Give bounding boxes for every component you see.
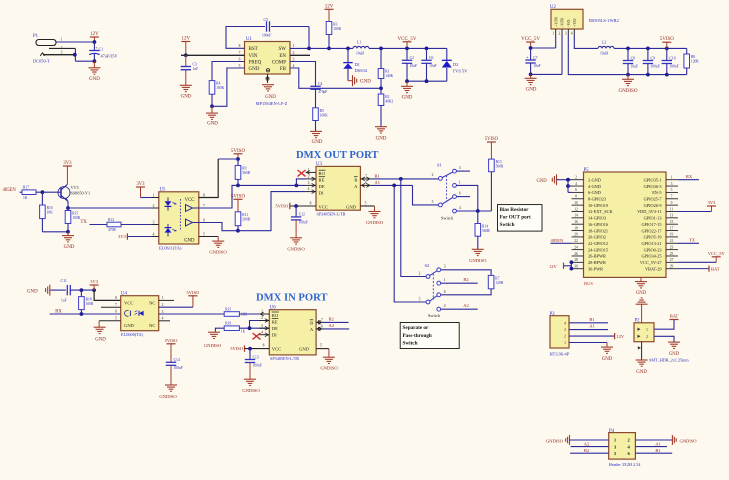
svg-text:3: 3: [459, 166, 461, 170]
power flag VCC_5V output: [403, 42, 412, 49]
svg-text:NC: NC: [149, 300, 155, 305]
junction R11/DI net: [236, 229, 240, 233]
svg-text:5VISO: 5VISO: [485, 137, 499, 142]
svg-text:1: 1: [459, 180, 461, 184]
svg-text:S2: S2: [425, 263, 431, 268]
svg-text:GND: GND: [89, 77, 100, 82]
svg-text:8: 8: [115, 296, 117, 300]
svg-text:5: 5: [115, 316, 117, 320]
svg-text:Separate or: Separate or: [403, 325, 429, 331]
ground GND under VT3: [62, 236, 74, 242]
ground GNDISO under C8: [627, 75, 629, 79]
power flag 5VISO at U4 pin2: [188, 296, 197, 307]
svg-text:560R: 560R: [242, 171, 250, 175]
svg-text:1: 1: [646, 328, 648, 332]
wire U5 pin5 to iso ground: [199, 236, 218, 238]
wire output gnd rail: [407, 80, 447, 82]
power flag 3V3 at VT3 collector: [63, 166, 72, 184]
svg-text:Swtich: Swtich: [500, 222, 515, 228]
svg-text:120R: 120R: [495, 281, 503, 285]
svg-text:100nF: 100nF: [253, 363, 262, 367]
svg-text:16-GPIO16: 16-GPIO16: [588, 222, 609, 227]
svg-text:560R: 560R: [482, 229, 490, 233]
resistor R15 100R: [67, 208, 69, 211]
svg-text:12: 12: [574, 207, 578, 211]
svg-text:1K: 1K: [241, 329, 246, 333]
ground GND above P2 (inverted): [636, 298, 648, 304]
svg-text:1uF: 1uF: [193, 67, 199, 71]
svg-text:5: 5: [203, 232, 205, 236]
svg-text:5VISO: 5VISO: [276, 204, 290, 209]
transistor VT3 SS8050-Y1: [58, 187, 70, 199]
svg-text:6: 6: [575, 188, 577, 192]
svg-text:VIN: VIN: [249, 54, 258, 59]
junction A1 branch: [392, 184, 396, 188]
svg-text:VBAT-29: VBAT-29: [645, 266, 662, 271]
svg-text:5VISO: 5VISO: [230, 346, 244, 351]
resistor R5 100K: [313, 108, 319, 121]
svg-text:TX: TX: [81, 220, 88, 225]
svg-text:B: B: [310, 321, 313, 326]
resistor R15 10K on RX line: [159, 313, 225, 315]
svg-text:R18: R18: [86, 298, 92, 302]
svg-text:C6: C6: [429, 56, 433, 60]
junction FB divider: [379, 86, 383, 90]
svg-text:GND: GND: [346, 204, 357, 209]
svg-text:4-GND: 4-GND: [588, 184, 601, 189]
capacitor C9 100nF: [646, 47, 650, 51]
svg-text:C8: C8: [631, 56, 635, 60]
capacitor C1 47uF/35V: [93, 42, 95, 51]
capacitor C8 10uF: [626, 47, 630, 51]
note box Separate or Pass-through: [400, 323, 459, 349]
svg-text:R8: R8: [691, 55, 695, 59]
resistor R3 100K: [326, 22, 332, 35]
ground GNDISO + resistor R19 1K to U6 RE/DE: [208, 332, 220, 338]
wire RE/DE net to U3 DE: [238, 184, 306, 186]
svg-text:EL0600(TA): EL0600(TA): [121, 332, 144, 337]
svg-text:R14: R14: [482, 225, 488, 229]
svg-text:R4: R4: [216, 82, 220, 86]
svg-text:10uF: 10uF: [410, 64, 417, 68]
wire COMP to C4: [290, 62, 316, 87]
svg-text:GPIO17-15: GPIO17-15: [641, 222, 661, 227]
svg-text:2: 2: [564, 335, 566, 339]
wire A1 jog down to S1 pin5: [413, 185, 439, 205]
svg-text:3V3: 3V3: [63, 161, 72, 166]
junction C5/SW: [307, 47, 311, 51]
svg-text:18: 18: [574, 226, 578, 230]
svg-text:12V: 12V: [325, 4, 334, 9]
inductor L2 10uH: [598, 46, 614, 48]
wire S2 pin4 stub A2: [441, 308, 478, 310]
svg-text:5VISO: 5VISO: [187, 290, 201, 295]
svg-text:R2: R2: [385, 95, 389, 99]
resistor R16 10K: [41, 192, 43, 205]
svg-text:100K: 100K: [216, 86, 224, 90]
svg-text:EL0611(TA): EL0611(TA): [159, 246, 182, 251]
svg-text:GND: GND: [602, 357, 613, 362]
svg-text:10uH: 10uH: [356, 52, 364, 56]
power flag 12V at VIN: [181, 42, 190, 56]
svg-text:24: 24: [574, 245, 578, 249]
net label A2 wire: [323, 328, 350, 330]
ground GNDISO under U3: [369, 212, 381, 218]
svg-text:-VO: -VO: [566, 20, 571, 27]
svg-text:R19: R19: [225, 322, 231, 326]
svg-text:100K: 100K: [333, 27, 341, 31]
svg-text:GPIO36-3: GPIO36-3: [644, 184, 662, 189]
svg-text:100K: 100K: [320, 113, 328, 117]
svg-text:14-GPIO3: 14-GPIO3: [588, 216, 606, 221]
svg-text:3V3: 3V3: [118, 234, 126, 239]
power flag 5VISO above R11: [234, 199, 243, 212]
svg-text:GND: GND: [636, 370, 647, 375]
svg-text:A2: A2: [329, 323, 335, 328]
svg-text:20: 20: [574, 233, 578, 237]
svg-text:1: 1: [444, 278, 446, 282]
U4 internal LED: [139, 311, 144, 316]
capacitor C3 1uF: [185, 55, 187, 66]
svg-text:RO: RO: [272, 313, 279, 318]
svg-text:GND: GND: [299, 347, 310, 352]
svg-text:GND: GND: [376, 137, 387, 142]
svg-text:3: 3: [671, 182, 673, 186]
junction R9/RE-DE net: [236, 184, 240, 188]
svg-text:B2: B2: [584, 448, 589, 453]
svg-text:DI: DI: [272, 332, 277, 337]
svg-text:C3: C3: [193, 62, 197, 66]
svg-text:1: 1: [153, 193, 155, 197]
junction RE/DE tie: [248, 326, 252, 330]
svg-text:3: 3: [308, 181, 310, 185]
power flag 3V3 at U4: [90, 285, 99, 290]
resistor R13 560R: [489, 159, 495, 172]
svg-text:470pF: 470pF: [318, 90, 327, 94]
svg-text:3: 3: [162, 310, 164, 314]
svg-text:VCC_5V: VCC_5V: [398, 37, 417, 42]
capacitor C14 100nF: [166, 361, 176, 363]
power flag VCC_5V at U2 input: [526, 42, 535, 48]
svg-text:A1: A1: [589, 324, 595, 329]
svg-text:GPIO5-19: GPIO5-19: [644, 235, 662, 240]
svg-text:B1: B1: [655, 448, 660, 453]
wire S1 pin6 stub: [456, 196, 470, 198]
svg-text:30-PWR: 30-PWR: [588, 266, 603, 271]
resistor R9 560R: [237, 159, 239, 166]
svg-text:19: 19: [670, 233, 674, 237]
svg-text:2: 2: [575, 176, 577, 180]
svg-text:VCC_5V-27: VCC_5V-27: [640, 260, 662, 265]
svg-text:C9: C9: [651, 56, 655, 60]
svg-text:13: 13: [670, 214, 674, 218]
svg-text:VCC: VCC: [185, 198, 195, 203]
svg-text:2: 2: [646, 335, 648, 339]
svg-text:100nF: 100nF: [174, 366, 183, 370]
svg-text:B: B: [354, 178, 357, 183]
svg-text:GPIO0-23: GPIO0-23: [644, 247, 662, 252]
svg-text:SS8050-Y1: SS8050-Y1: [71, 191, 91, 196]
power flag VCC_5V at P5 pin27: [678, 261, 716, 263]
svg-text:RX: RX: [686, 174, 693, 179]
svg-text:10-GPIO19: 10-GPIO19: [588, 203, 608, 208]
svg-text:3: 3: [565, 32, 567, 36]
wire emitter node: [67, 201, 69, 208]
ground GNDISO under U6: [323, 357, 335, 363]
svg-text:A2: A2: [584, 441, 590, 446]
wire P4 pin3 A2: [571, 446, 609, 448]
svg-text:12-EXT_SCK: 12-EXT_SCK: [588, 209, 613, 214]
svg-text:3V3: 3V3: [136, 182, 145, 187]
svg-text:47uF/35V: 47uF/35V: [101, 54, 118, 59]
svg-text:DC050-T: DC050-T: [33, 59, 50, 64]
svg-text:8: 8: [575, 195, 577, 199]
junction 3V3/VCC: [92, 288, 96, 292]
svg-text:C5: C5: [264, 18, 269, 22]
svg-text:GNDISO: GNDISO: [469, 258, 487, 263]
svg-text:C4: C4: [318, 82, 322, 86]
svg-text:DI: DI: [319, 190, 324, 195]
wire GND pin jog: [212, 68, 245, 106]
power flag 5VISO: [662, 42, 671, 48]
svg-text:GND: GND: [124, 323, 135, 328]
ground GNDISO under C12: [290, 238, 302, 244]
svg-text:10uF: 10uF: [533, 64, 540, 68]
power flag 12V (input): [90, 37, 99, 42]
U5 pin stubs and numbers: [151, 197, 159, 199]
svg-text:VCC_5V: VCC_5V: [708, 251, 726, 256]
svg-text:12V: 12V: [549, 264, 558, 269]
svg-text:BAT: BAT: [711, 266, 720, 271]
svg-text:120R: 120R: [691, 60, 699, 64]
svg-text:10uF: 10uF: [631, 64, 638, 68]
svg-text:SW: SW: [279, 47, 287, 52]
svg-text:3: 3: [444, 265, 446, 269]
wire jog to U6 RE: [250, 321, 270, 329]
svg-text:R1: R1: [385, 70, 389, 74]
ground GND under R5: [310, 131, 322, 137]
svg-text:GND: GND: [249, 67, 260, 72]
wire R14 to GNDISO: [477, 236, 479, 249]
svg-text:GND: GND: [360, 80, 371, 85]
svg-text:R11: R11: [242, 213, 248, 217]
resistor R2 divider bottom: [378, 94, 384, 106]
ground GND under R4: [206, 113, 218, 119]
svg-text:GNDISO: GNDISO: [287, 247, 305, 252]
svg-text:10K: 10K: [47, 211, 54, 215]
svg-text:40K2: 40K2: [385, 100, 393, 104]
svg-text:EN: EN: [279, 54, 286, 59]
svg-text:R16: R16: [47, 206, 53, 210]
wire P4 pin1: [570, 439, 609, 441]
svg-text:2: 2: [432, 173, 434, 177]
note box Bias Resistor: [498, 205, 543, 232]
U3 left pin stubs: [306, 171, 316, 173]
wire P2 shield to GND below: [641, 342, 643, 360]
wire R7 to S2 pin6: [441, 289, 491, 295]
svg-text:R17: R17: [23, 186, 29, 190]
junction C1-/GND: [93, 59, 97, 63]
wire VIN: [181, 54, 245, 56]
svg-text:C12: C12: [299, 213, 305, 217]
wire U6 GND pin5: [316, 348, 329, 350]
svg-text:R3: R3: [333, 23, 337, 27]
junction B1 branch: [399, 177, 403, 181]
resistor R1 divider top: [379, 47, 383, 51]
svg-text:FB: FB: [280, 67, 287, 72]
power flag 3V3 sideways at U5 pin4: [126, 233, 128, 239]
svg-text:P1: P1: [33, 34, 39, 39]
svg-text:GND: GND: [27, 290, 38, 295]
junction bias node: [476, 209, 480, 213]
svg-text:Header 3X2H 2.54: Header 3X2H 2.54: [609, 462, 642, 467]
svg-text:8-GPIO23: 8-GPIO23: [588, 196, 606, 201]
junction R18/RX line: [80, 312, 84, 316]
svg-text:4: 4: [308, 187, 310, 191]
S1 blade bottom: [442, 197, 453, 204]
junction base/R16: [41, 190, 45, 194]
wire B1 branch down to S2 pin2: [401, 179, 426, 277]
svg-text:C14: C14: [174, 358, 180, 362]
ground GND under C7: [525, 78, 537, 84]
svg-text:485EN: 485EN: [551, 238, 564, 243]
svg-text:2: 2: [153, 204, 155, 208]
power flag 5VISO sideways at U6 VCC: [244, 345, 246, 351]
capacitor C13 100nF: [249, 349, 251, 360]
U3 right pin stubs: [360, 178, 370, 180]
svg-text:22-GPIO12: 22-GPIO12: [588, 241, 608, 246]
wire R17 to VT3 base: [36, 191, 61, 193]
svg-text:16: 16: [574, 220, 578, 224]
svg-text:5: 5: [320, 344, 322, 348]
svg-text:+VIN: +VIN: [553, 17, 558, 27]
svg-text:SMT_HDR_2x1.25mm: SMT_HDR_2x1.25mm: [649, 358, 689, 363]
svg-text:BUS: BUS: [584, 281, 593, 286]
svg-text:DMX IN PORT: DMX IN PORT: [256, 293, 327, 304]
wire +VO to L2: [574, 35, 598, 48]
junction R18 top: [80, 288, 84, 292]
svg-text:-VIN: -VIN: [560, 18, 565, 27]
svg-text:RE: RE: [319, 178, 325, 183]
wire S1 pin3 stub: [456, 170, 470, 172]
svg-text:12V: 12V: [181, 37, 190, 42]
svg-text:GPIO26-9: GPIO26-9: [644, 203, 662, 208]
wire U3 GND pin5: [360, 205, 374, 207]
svg-text:9: 9: [671, 201, 673, 205]
ground GND under P2: [636, 360, 648, 366]
ground GND sideways at D1 anode: [348, 80, 352, 82]
svg-text:GND: GND: [184, 239, 195, 244]
no-connect X on U6 DI: [253, 333, 261, 339]
U5 internal LED bottom: [167, 224, 169, 228]
svg-text:5: 5: [365, 201, 367, 205]
svg-text:VCC: VCC: [124, 300, 133, 305]
svg-text:3: 3: [564, 328, 566, 332]
svg-text:8: 8: [203, 193, 205, 197]
wire R13 to bias node: [490, 172, 492, 211]
svg-text:GND: GND: [402, 96, 413, 101]
svg-text:C7: C7: [533, 56, 537, 60]
svg-text:2: 2: [559, 32, 561, 36]
junction emitter/opto: [66, 206, 70, 210]
wire VCC_5V to +VIN: [531, 47, 556, 49]
diode D1 DSS34: [346, 47, 350, 51]
U5 internal receiver buffers: [186, 205, 193, 212]
svg-text:VT3: VT3: [71, 185, 80, 190]
ground GND under P5: [640, 277, 642, 281]
svg-text:DE: DE: [319, 184, 325, 189]
svg-text:28: 28: [574, 258, 578, 262]
svg-text:VDD_3V3-11: VDD_3V3-11: [637, 209, 661, 214]
svg-text:DSS34: DSS34: [355, 68, 368, 73]
svg-text:8: 8: [263, 344, 265, 348]
svg-text:17: 17: [670, 226, 674, 230]
svg-text:5: 5: [432, 200, 434, 204]
ground GND under R2: [375, 127, 387, 133]
ground GND under U4: [94, 327, 106, 333]
svg-text:GPIO22-17: GPIO22-17: [641, 228, 662, 233]
svg-text:BST: BST: [249, 47, 258, 52]
svg-text:3: 3: [61, 51, 63, 55]
wire U5 pin8 VCC riser: [199, 159, 218, 198]
svg-text:R12: R12: [108, 218, 114, 222]
wire R2 to gnd: [380, 106, 382, 127]
wire R12 to U5 pin3: [121, 224, 151, 226]
wire P1 pins 2,3 to gnd node: [49, 47, 75, 49]
svg-text:2: 2: [261, 316, 263, 320]
svg-text:L2: L2: [602, 41, 606, 45]
wire C5 to SW node: [271, 26, 309, 28]
wire U5 pin7 jog to RE/DE net: [199, 185, 238, 208]
svg-text:2-GND: 2-GND: [588, 177, 601, 182]
power flag BAT sideways at P5 pin29: [678, 268, 709, 270]
svg-text:GNDISO: GNDISO: [320, 366, 338, 371]
svg-text:4: 4: [571, 32, 573, 36]
capacitor C12 100nF: [295, 206, 297, 217]
svg-text:GNDISO: GNDISO: [209, 250, 227, 255]
svg-text:D2: D2: [453, 62, 458, 67]
svg-text:1: 1: [61, 38, 63, 42]
wire 3V3 node to U4 VCC pin8: [94, 290, 121, 300]
svg-text:DMX OUT PORT: DMX OUT PORT: [296, 150, 378, 161]
svg-text:7: 7: [115, 303, 117, 307]
capacitor C10 100nF: [665, 47, 669, 51]
svg-text:4: 4: [564, 321, 566, 325]
svg-text:3: 3: [261, 324, 263, 328]
wire 3V3 to U5 pin4: [127, 236, 150, 238]
svg-text:100nF: 100nF: [262, 34, 271, 38]
svg-text:S1: S1: [437, 163, 443, 168]
svg-text:25: 25: [670, 252, 674, 256]
svg-text:26: 26: [574, 252, 578, 256]
resistor R7 120R: [488, 275, 494, 288]
svg-text:1: 1: [564, 341, 566, 345]
svg-text:100nF: 100nF: [299, 221, 308, 225]
svg-text:11: 11: [670, 207, 674, 211]
svg-text:+VO: +VO: [572, 19, 577, 27]
wire P3 pin3 A1: [569, 329, 608, 331]
wire emitter to U5 pin2: [68, 207, 151, 209]
svg-text:7: 7: [239, 51, 241, 55]
power flag 3V3 at P5 pin11: [678, 211, 712, 213]
svg-text:GND: GND: [265, 95, 276, 100]
svg-text:100R: 100R: [72, 216, 80, 220]
svg-text:C11: C11: [61, 279, 67, 283]
svg-text:DE: DE: [272, 326, 278, 331]
svg-text:R15: R15: [225, 307, 231, 311]
svg-text:GND: GND: [95, 338, 106, 343]
svg-text:560R: 560R: [496, 165, 504, 169]
